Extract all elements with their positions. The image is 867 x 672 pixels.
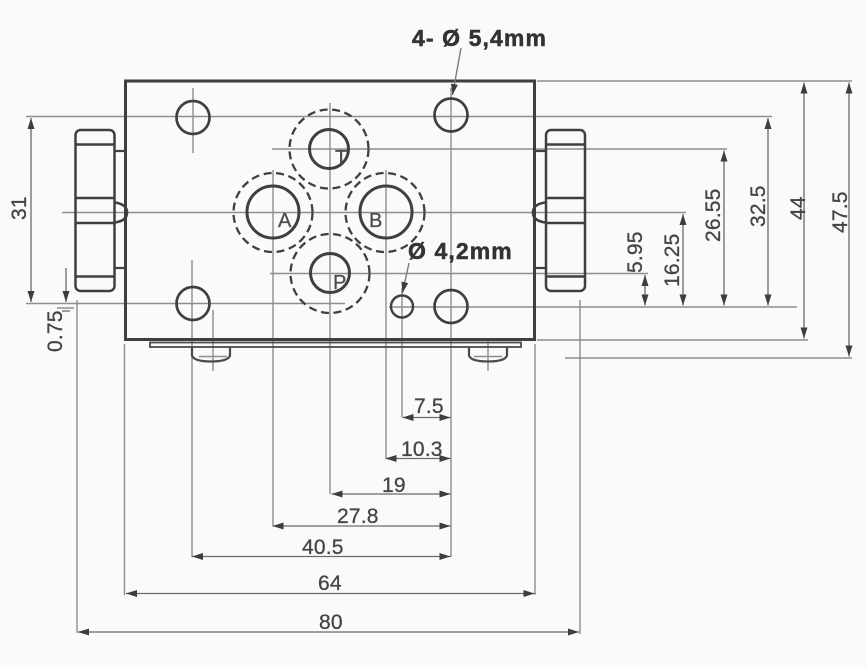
centerline P port horizontal — [270, 273, 648, 275]
svg-text:31: 31 — [8, 196, 31, 220]
svg-text:10.3: 10.3 — [401, 438, 443, 461]
svg-text:40.5: 40.5 — [302, 536, 344, 559]
left tab cap line bottom — [76, 275, 114, 278]
dim 31 line — [30, 118, 32, 302]
extension left tab edge down to 80 — [76, 300, 78, 633]
svg-text:7.5: 7.5 — [414, 395, 444, 418]
dim 7.5 line — [403, 417, 451, 419]
dim 44 line — [803, 83, 805, 339]
port A circle — [247, 186, 299, 238]
left tab mid line lower — [76, 222, 114, 225]
centerline bottom-left hole — [26, 303, 345, 305]
svg-text:4- Ø 5,4mm: 4- Ø 5,4mm — [412, 25, 547, 51]
port B dashed circle — [346, 173, 425, 252]
extension right tab edge down to 80 — [579, 300, 581, 634]
svg-text:T: T — [335, 147, 347, 169]
mounting hole top-left — [177, 101, 210, 134]
right tab mid line lower — [546, 222, 584, 225]
extension body left edge down to 64 — [124, 344, 126, 595]
extension bump bottom right — [565, 357, 852, 359]
svg-text:19: 19 — [382, 474, 406, 497]
dim 47.5 line — [848, 83, 850, 357]
left tab neck bottom — [114, 267, 126, 269]
right tab cap line top — [546, 143, 584, 146]
svg-text:44: 44 — [787, 196, 810, 220]
centerline A B ports horizontal — [62, 212, 686, 214]
centerline T-P vertical down to 19 — [329, 103, 331, 494]
bottom flange strip — [150, 343, 521, 348]
centerline right holes column vertical down to 40.5 — [450, 88, 452, 557]
right tab neck bottom — [534, 267, 546, 269]
svg-text:Ø 4,2mm: Ø 4,2mm — [408, 238, 513, 264]
dim 0.75 line — [65, 268, 67, 302]
extension body right edge down to 64 — [534, 344, 536, 595]
leader 5.4mm — [453, 48, 462, 95]
extension bottom-left hole vertical down to 40.5 — [191, 260, 193, 557]
svg-text:80: 80 — [319, 611, 343, 634]
dim 40.5 line — [192, 556, 451, 558]
svg-text:26.55: 26.55 — [702, 188, 725, 242]
right connector tab outline — [546, 130, 585, 291]
svg-text:P: P — [333, 272, 346, 294]
dim 5.95 line — [644, 275, 646, 306]
mounting hole top-right — [435, 99, 468, 132]
port T dashed circle — [290, 110, 369, 189]
dim 10.3 line — [386, 458, 451, 460]
leader 4.2mm — [403, 263, 410, 293]
svg-text:16.25: 16.25 — [661, 233, 684, 287]
dim 19 line — [332, 493, 451, 495]
extension body bottom edge right — [537, 339, 808, 341]
centerline right bump — [487, 338, 489, 371]
extension small hole vertical down to 7.5 — [401, 288, 403, 417]
dim 27.8 line — [273, 525, 451, 527]
svg-text:47.5: 47.5 — [829, 191, 852, 233]
svg-text:0.75: 0.75 — [44, 310, 67, 352]
left tab neck top — [114, 150, 126, 152]
small hole 4.2mm — [391, 296, 413, 318]
svg-text:64: 64 — [318, 572, 342, 595]
mounting hole bottom-left — [177, 287, 210, 320]
dim 80 line — [78, 631, 579, 633]
svg-text:32.5: 32.5 — [747, 185, 770, 227]
extension body top edge right — [537, 80, 852, 82]
left tab nose bump — [115, 203, 128, 223]
dim 26.55 line — [723, 151, 725, 306]
port A dashed circle — [234, 173, 313, 252]
svg-text:27.8: 27.8 — [337, 505, 379, 528]
svg-text:A: A — [278, 210, 292, 232]
centerline bottom small holes — [57, 307, 74, 309]
right tab nose bump — [533, 203, 546, 223]
port T circle — [310, 130, 349, 169]
svg-text:B: B — [369, 210, 382, 232]
centerline left bump — [212, 310, 214, 371]
port P circle — [311, 254, 350, 293]
centerline T port horizontal — [272, 148, 727, 150]
right tab cap line bottom — [546, 275, 584, 278]
left tab cap line top — [76, 143, 114, 146]
port P dashed circle — [291, 234, 370, 313]
centerline top-left hole vertical — [192, 88, 194, 153]
centerline A vertical down to 27.8 — [272, 170, 274, 526]
mounting hole bottom-right — [435, 290, 468, 323]
centerline B vertical down to 10.3 — [385, 170, 387, 458]
right tab neck top — [534, 150, 546, 152]
bottom tab right — [469, 348, 507, 362]
svg-text:5.95: 5.95 — [624, 231, 647, 273]
centerline top holes row — [26, 116, 772, 118]
left tab mid line upper — [76, 197, 114, 200]
dim 64 line — [126, 593, 535, 595]
right tab mid line upper — [546, 197, 584, 200]
bottom tab left — [192, 348, 230, 362]
port B circle — [360, 186, 412, 238]
dim 16.25 line — [682, 214, 684, 306]
dim 32.5 line — [767, 118, 769, 306]
body plate outline — [126, 81, 535, 340]
left connector tab outline — [76, 130, 115, 291]
